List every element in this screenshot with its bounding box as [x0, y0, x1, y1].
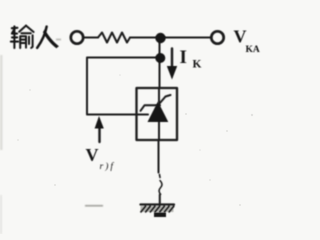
svg-text:I: I [180, 47, 187, 68]
svg-text:KA: KA [246, 45, 260, 55]
svg-text:V: V [234, 27, 247, 47]
svg-text:K: K [193, 59, 202, 71]
svg-text:r)f: r)f [100, 161, 116, 172]
svg-text:V: V [86, 145, 99, 165]
